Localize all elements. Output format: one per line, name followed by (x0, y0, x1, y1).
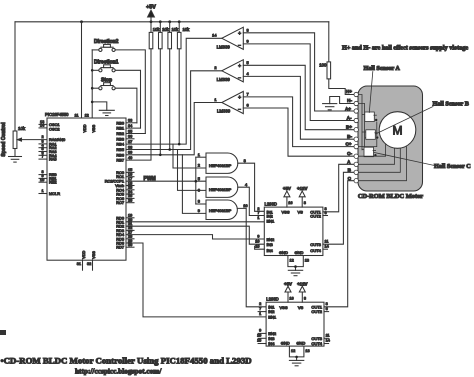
AND gate U5C HEF4081BP (198, 199, 249, 220)
wire RD1 to L293D U3 EN1 (126, 221, 264, 223)
svg-text:GND: GND (279, 250, 288, 255)
svg-text:OSC2: OSC2 (49, 127, 60, 132)
wire RB4 row to comparator1 (126, 38, 222, 144)
svg-text:RB1: RB1 (116, 126, 124, 131)
svg-text:VS: VS (298, 305, 304, 310)
svg-text:5: 5 (198, 176, 200, 181)
pin U4 IN4 stub (258, 343, 266, 345)
svg-text:4: 4 (245, 182, 248, 187)
pin 32 VSS bottom stub (87, 260, 93, 270)
PIC left pins RA0-RA5 (39, 135, 66, 161)
wire RD2 to U3 IN3 (126, 226, 264, 244)
wire U3 GND pins 12 13 (288, 256, 309, 271)
svg-text:+: + (238, 95, 241, 101)
pin RD0 stub (126, 217, 134, 219)
svg-text:33: 33 (128, 119, 132, 123)
svg-text:100: 100 (319, 63, 327, 68)
svg-text:RB0: RB0 (116, 120, 124, 125)
pin RC7 stub (126, 202, 134, 204)
svg-text:OUT4: OUT4 (310, 248, 321, 253)
svg-text:Hall Sensor C: Hall Sensor C (434, 163, 471, 170)
svg-text:+5V: +5V (284, 281, 292, 286)
wire VDD pin11 drop (81, 22, 83, 118)
power +5V arrow U3 VSS pin16 (283, 186, 293, 207)
wire PWM RC2/CCP1 to gates (126, 180, 206, 182)
AND gate U5B HEF4081BP (198, 176, 248, 198)
wire RB5 row to comparator2 (126, 71, 222, 150)
svg-text:7: 7 (42, 155, 44, 159)
svg-text:VSS: VSS (92, 251, 96, 259)
svg-text:EN1: EN1 (268, 315, 277, 320)
pin U4 IN3 stub (258, 337, 266, 339)
svg-text:10k: 10k (153, 27, 161, 32)
hall sensor B square (366, 130, 379, 140)
power +5V arrow symbol top (146, 5, 156, 22)
power +12V arrow U3 VS pin8 (297, 186, 307, 207)
power +12V arrow U4 VS pin8 (297, 281, 307, 302)
motor M circle (379, 112, 416, 149)
svg-text:15: 15 (255, 245, 259, 249)
wire RB6 row to comparator3 (126, 103, 222, 155)
svg-text:+12V: +12V (297, 281, 307, 286)
hall supply rail H+ inside motor (358, 95, 366, 150)
svg-text:8: 8 (198, 199, 200, 204)
svg-text:CD-ROM BLDC Motor: CD-ROM BLDC Motor (358, 193, 423, 200)
comparator U2C LM339 (214, 91, 243, 113)
node dots on RB rows (159, 143, 181, 156)
svg-text:B-: B- (347, 134, 352, 139)
wire motor phase C from U4 OUT1 (324, 181, 354, 307)
ground buttons (92, 102, 114, 116)
pin RB2 wire (126, 133, 145, 135)
svg-text:14: 14 (212, 33, 217, 38)
ground U3 (288, 270, 302, 275)
label Hall Sensor B with pointer (376, 101, 469, 134)
comparator U2A LM339 (212, 27, 243, 49)
pin RD7 stub (126, 246, 134, 248)
svg-text:14: 14 (326, 339, 330, 343)
svg-text:+5V: +5V (146, 5, 156, 11)
svg-text:16: 16 (288, 201, 292, 205)
switch Direction1 (92, 60, 140, 129)
svg-text:RD7: RD7 (116, 245, 124, 250)
svg-text:C-: C- (347, 151, 352, 156)
pin RD3 stub (126, 229, 134, 231)
svg-text:7: 7 (247, 91, 249, 96)
svg-text:B: B (348, 168, 352, 173)
svg-text:−: − (238, 75, 241, 81)
svg-text:OUT4: OUT4 (311, 341, 322, 346)
ground U4 (289, 360, 303, 365)
svg-text:6: 6 (247, 103, 249, 108)
svg-text:−: − (238, 107, 241, 113)
PIC right pin labels RC0-RC7 (105, 170, 125, 205)
svg-text:10: 10 (40, 178, 44, 182)
motor CD-ROM BLDC body (358, 86, 423, 191)
svg-text:GND: GND (296, 340, 305, 345)
node PWM bus junction (195, 180, 198, 183)
svg-text:RC7: RC7 (116, 200, 124, 205)
svg-text:40: 40 (128, 156, 132, 160)
svg-text:H-: H- (347, 98, 352, 103)
hall supply rail H- inside motor (358, 104, 366, 156)
svg-text:MCLR: MCLR (49, 191, 60, 196)
pin RD5 stub (126, 238, 134, 240)
svg-text:PIC18F4550: PIC18F4550 (45, 112, 69, 117)
svg-text:30: 30 (128, 243, 132, 247)
wire H- to ground (330, 97, 354, 104)
microcontroller U1 PIC18F4550 (45, 112, 126, 260)
pin U4 OUT3 stub (324, 337, 329, 339)
pin Vusb stub (126, 185, 134, 187)
wire gate3 output to U4 IN1 (237, 208, 266, 306)
switch Direction2 (92, 39, 145, 134)
svg-text:13: 13 (305, 258, 309, 262)
svg-text:13: 13 (305, 349, 309, 353)
svg-text:VDD: VDD (82, 251, 86, 259)
wire +5V rail (15, 21, 329, 23)
PIC left pins RE0-RE2 (39, 170, 57, 185)
wire motor internal C+ to sensor A (358, 122, 377, 146)
svg-text:3: 3 (244, 158, 246, 163)
wire motor phase A from U3 OUT1 (323, 164, 354, 212)
pin RC4 stub (126, 189, 134, 191)
svg-text:2: 2 (198, 163, 200, 168)
wire gate2 output to U3 IN2 (238, 187, 264, 215)
pin RC6 stub (126, 197, 134, 199)
wire comp2 +in pin5 to motor B+ (243, 60, 354, 130)
svg-text:C+: C+ (345, 142, 351, 147)
svg-text:10: 10 (255, 240, 259, 244)
svg-text:A: A (347, 160, 351, 165)
svg-text:35: 35 (128, 129, 132, 133)
svg-text:http://ccspicc.blogspot.com/: http://ccspicc.blogspot.com/ (75, 367, 162, 376)
svg-text:10k: 10k (162, 27, 170, 32)
svg-text:HEF4081BP: HEF4081BP (209, 208, 232, 213)
svg-text:RB7: RB7 (116, 158, 124, 163)
svg-text:RB4: RB4 (116, 142, 124, 147)
wire motor internal C- to sensor B (358, 139, 386, 156)
wire comp3 +in pin7 to motor C+ (243, 91, 354, 146)
svg-text:LM339: LM339 (217, 109, 231, 114)
wire gate2 input feed (178, 150, 207, 191)
svg-text:VSS: VSS (279, 305, 287, 310)
svg-text:RE2: RE2 (49, 180, 57, 185)
svg-text:2: 2 (259, 302, 261, 306)
motor pin circles H+ H- A+ A- B+ B- C+ C- A B C (354, 92, 358, 183)
svg-text:H+ and H- are hall effect sens: H+ and H- are hall effect sensors supply… (342, 45, 468, 52)
AND gate U5A HEF4081BP (198, 152, 246, 174)
svg-text:IN2: IN2 (268, 309, 275, 314)
svg-text:OUT3: OUT3 (310, 242, 321, 247)
wire gate1 input feed (173, 144, 206, 168)
resistor R1 10k (126, 22, 160, 160)
svg-text:EN1: EN1 (267, 218, 276, 223)
svg-text:Hall Sensor A: Hall Sensor A (364, 65, 401, 72)
svg-text:9: 9 (247, 38, 249, 43)
svg-text:OUT2: OUT2 (310, 213, 321, 218)
pin RC5 stub (126, 193, 134, 195)
svg-text:10: 10 (243, 203, 248, 208)
hall sensor A square (365, 112, 378, 122)
wire button ground bus (91, 50, 93, 118)
svg-text:15: 15 (257, 339, 261, 343)
pin U3 OUT2 stub (323, 215, 328, 217)
svg-text:LM339: LM339 (217, 44, 231, 49)
svg-text:16: 16 (289, 296, 293, 300)
wire RD4 to U3 EN2 (126, 235, 264, 239)
wire motor internal phase C (358, 147, 407, 181)
svg-text:PWM: PWM (144, 176, 156, 182)
svg-text:+5V: +5V (283, 186, 291, 191)
svg-text:10k: 10k (18, 126, 26, 131)
svg-text:+12V: +12V (297, 186, 307, 191)
svg-text:VS: VS (298, 210, 304, 215)
svg-text:VDD: VDD (83, 124, 87, 132)
svg-text:10k: 10k (172, 27, 180, 32)
pin U4 OUT2 stub (324, 311, 329, 313)
wire PWM bus to gate inputs (195, 157, 197, 204)
resistor R3 10k (168, 22, 179, 150)
svg-text:−: − (238, 43, 241, 49)
svg-text:IN4: IN4 (267, 248, 274, 253)
svg-text:39: 39 (128, 151, 132, 155)
artifact mark bottom left (0, 330, 6, 335)
svg-text:6: 6 (198, 187, 200, 192)
svg-text:38: 38 (128, 145, 132, 149)
svg-text:+: + (238, 63, 241, 69)
ground pot (9, 157, 22, 163)
PIC right pin labels RB0-RB7 (116, 120, 124, 162)
ground hall sensor supply (323, 104, 337, 110)
wire comp1 +in pin8 to motor A+ (243, 27, 354, 111)
svg-text:8: 8 (247, 27, 249, 32)
svg-text:34: 34 (128, 124, 132, 128)
svg-text:RB5: RB5 (116, 147, 124, 152)
label Hall Sensor C with pointer (374, 153, 470, 171)
hall sensor C square (364, 147, 377, 157)
wire U4 GND pins 12 13 (289, 346, 309, 360)
svg-text:RB2: RB2 (116, 131, 124, 136)
svg-text:1: 1 (198, 152, 200, 157)
svg-text:L293D: L293D (266, 297, 278, 302)
wire motor internal phase A (358, 149, 395, 165)
svg-text:RB6: RB6 (116, 152, 124, 157)
svg-text:2: 2 (214, 65, 216, 70)
svg-text:26: 26 (128, 199, 132, 203)
svg-text:7: 7 (259, 307, 261, 311)
svg-text:12: 12 (290, 258, 294, 262)
PIC right pin labels RD0-RD7 (116, 215, 125, 249)
PIC left pin MCLR (39, 189, 60, 196)
svg-text:9: 9 (259, 329, 261, 333)
svg-text:GND: GND (295, 250, 304, 255)
svg-text:4: 4 (247, 71, 250, 76)
svg-text:12: 12 (291, 349, 295, 353)
pin U3 IN4 stub (255, 246, 265, 249)
wire gate3 input feed (182, 155, 206, 214)
pin U4 OUT4 stub (324, 343, 329, 345)
motor driver U3 L293D (255, 201, 328, 255)
resistor R4 10k (177, 22, 190, 144)
svg-text:14: 14 (325, 245, 329, 249)
svg-text:9: 9 (257, 235, 259, 239)
svg-text:OUT2: OUT2 (311, 309, 322, 314)
pin 31 VDD bottom stub (77, 260, 83, 270)
svg-text:H+: H+ (346, 89, 352, 94)
wire RD6 to L293D U4 EN1 (126, 243, 266, 317)
svg-text:6: 6 (326, 307, 328, 311)
svg-text:IN4: IN4 (268, 341, 275, 346)
svg-text:9: 9 (198, 208, 200, 213)
resistor R2 10k (159, 22, 170, 155)
svg-text:1: 1 (42, 189, 44, 193)
wire gate1 output to U3 IN1 (238, 163, 264, 211)
svg-text:32: 32 (87, 262, 91, 266)
svg-text:L293D: L293D (265, 201, 277, 206)
svg-text:A+: A+ (345, 107, 351, 112)
svg-text:1: 1 (214, 97, 216, 102)
svg-text:RB3: RB3 (116, 136, 124, 141)
svg-text:12: 12 (85, 113, 89, 117)
svg-text:VSS: VSS (92, 124, 96, 132)
wire motor internal phase B (358, 149, 400, 173)
svg-text:Hall Sensor B: Hall Sensor B (433, 101, 469, 108)
comparator U2B LM339 (214, 60, 243, 82)
svg-text:Speed Control: Speed Control (1, 122, 7, 157)
resistor R6 100 hall supply (319, 22, 354, 95)
pin RB0 wire (126, 122, 137, 124)
svg-text:A-: A- (347, 116, 352, 121)
wire comp2 -in pin4 to motor B- (243, 71, 354, 139)
svg-text:RA5: RA5 (49, 157, 57, 162)
svg-text:31: 31 (77, 262, 81, 266)
svg-text:HEF4081BP: HEF4081BP (209, 187, 232, 192)
svg-text:B+: B+ (346, 125, 352, 130)
svg-text:7: 7 (257, 211, 259, 215)
svg-text:37: 37 (128, 140, 132, 144)
node bus junctions (91, 69, 94, 103)
svg-text:+: + (238, 31, 241, 37)
svg-text:5: 5 (247, 60, 249, 65)
wire comp1 -in pin9 to motor A- (243, 38, 354, 120)
svg-text:1: 1 (257, 216, 259, 220)
switch Stop (92, 78, 137, 123)
PIC left pins OSC1 OSC2 (39, 120, 60, 132)
svg-text:1: 1 (259, 312, 261, 316)
svg-text:11: 11 (325, 240, 329, 244)
svg-text:36: 36 (128, 135, 132, 139)
label Hall Sensor A with pointer (364, 65, 401, 113)
svg-text:3: 3 (326, 302, 328, 306)
wire motor phase B from U3 OUT3 (323, 172, 354, 244)
svg-text:11: 11 (326, 334, 330, 338)
svg-text:GND: GND (281, 340, 290, 345)
svg-text:8: 8 (304, 296, 306, 300)
svg-text:11: 11 (75, 113, 79, 117)
power +5V arrow U4 VSS pin16 (284, 281, 294, 302)
svg-text:10k: 10k (183, 27, 191, 32)
svg-text:16: 16 (128, 173, 132, 177)
pin U4 IN2 stub (258, 311, 266, 313)
pin RC1 stub (126, 176, 134, 178)
wire comp3 -in pin6 to motor C- (243, 103, 354, 157)
node junction dots on +5V rail (80, 20, 181, 23)
svg-text:•CD-ROM BLDC Motor Controller: •CD-ROM BLDC Motor Controller Using PIC1… (1, 356, 252, 366)
pin RB3 stub (126, 138, 134, 140)
motor driver U4 L293D (257, 297, 330, 347)
pin RB1 wire (126, 127, 141, 129)
svg-text:8: 8 (304, 201, 306, 205)
svg-text:10: 10 (257, 334, 261, 338)
potentiometer R5 10k speed control (13, 22, 47, 157)
pin U4 EN2 stub (258, 332, 266, 334)
svg-text:HEF4081BP: HEF4081BP (209, 163, 232, 168)
pin U3 OUT4 stub (323, 248, 328, 250)
pin RC0 stub (126, 171, 134, 173)
svg-text:VSS: VSS (282, 210, 290, 215)
motor pin labels (345, 89, 352, 181)
svg-text:IN3: IN3 (267, 242, 274, 247)
svg-text:LM339: LM339 (217, 77, 231, 82)
svg-text:14: 14 (40, 124, 44, 128)
